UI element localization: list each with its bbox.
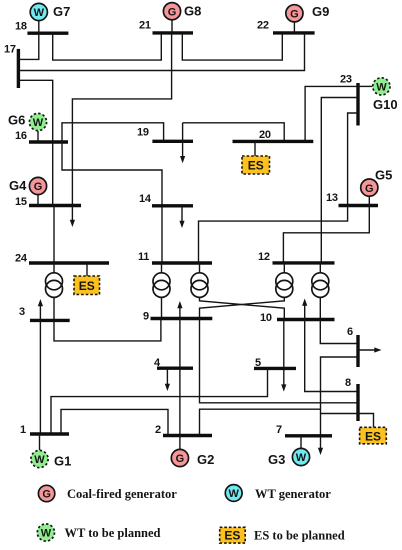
wire 15-24 (through bus 16/15 column) (52, 142, 54, 206)
bus 24 (15, 253, 109, 265)
wire 15-21 (72, 33, 171, 206)
svg-text:G5: G5 (375, 168, 392, 183)
bus 16 (15, 130, 68, 142)
bus 10 (260, 312, 335, 324)
svg-text:G2: G2 (197, 452, 214, 467)
wire 16-17 (18, 80, 52, 142)
bus 20 (233, 129, 314, 141)
generator G8 (coal) (163, 3, 201, 33)
wire 11-13 (199, 206, 348, 264)
svg-text:24: 24 (15, 253, 28, 265)
svg-text:2: 2 (155, 424, 161, 436)
generator G1 (WT planned) (31, 434, 71, 469)
svg-text:G8: G8 (184, 4, 201, 19)
svg-text:ES: ES (248, 159, 264, 173)
wire 13-23 (348, 113, 358, 206)
wire 2-6 (bus 6 to junction, down to bus 7 and load) (318, 357, 358, 455)
svg-text:6: 6 (347, 326, 353, 338)
svg-text:8: 8 (345, 377, 351, 389)
bus 14 (139, 193, 193, 206)
svg-text:W: W (376, 82, 387, 94)
wire 20-23 (305, 86, 358, 141)
bus 18 (15, 21, 68, 34)
bus 23 (340, 74, 358, 126)
generator G4 (coal) (9, 177, 47, 205)
bus 6 (347, 326, 358, 367)
generator G9 (coal) (286, 4, 330, 33)
legend: coal-fired generator (38, 485, 177, 501)
wire 18-21 (53, 33, 162, 60)
svg-text:W: W (34, 7, 45, 19)
svg-text:W: W (229, 488, 240, 500)
svg-text:ES: ES (365, 429, 381, 443)
legend: WT to be planned (37, 524, 160, 541)
generator G3 (WT) (268, 436, 310, 467)
transformer T2 (9-11) (153, 263, 170, 319)
wire 11-14 (161, 206, 163, 263)
svg-text:G6: G6 (8, 113, 25, 128)
generator G10 (WT planned) (358, 78, 398, 112)
bus 15 (15, 196, 81, 208)
bus 21 (139, 20, 193, 33)
load arrow bus 14 (179, 206, 184, 228)
svg-text:7: 7 (276, 424, 282, 436)
legend: WT generator (225, 485, 331, 502)
svg-text:9: 9 (143, 311, 149, 323)
load arrow bus 4 (165, 368, 170, 391)
bus 11 (138, 251, 212, 263)
svg-text:20: 20 (259, 129, 271, 141)
svg-text:G: G (168, 6, 177, 18)
bus 2 (155, 424, 212, 436)
bus 4 (154, 357, 193, 369)
svg-text:W: W (296, 452, 307, 464)
svg-text:G1: G1 (54, 454, 71, 469)
svg-text:G7: G7 (53, 4, 70, 19)
svg-text:W: W (33, 117, 44, 129)
wire 3-9 (54, 319, 161, 341)
transformer T3 (10-11, crossing) (191, 263, 284, 320)
transformer T4 (9-12, crossing) (200, 263, 293, 319)
svg-text:ES: ES (79, 279, 95, 293)
transformer T5 (10-12) (312, 263, 329, 320)
wire 5-10 + load arrow bus 5 (281, 320, 286, 392)
svg-text:15: 15 (15, 196, 27, 208)
wire 14-16 (62, 142, 162, 206)
bus 9 (143, 311, 212, 323)
wire 21-22 (182, 33, 282, 60)
load arrow bus 3 (up) + wire 1-3 (38, 299, 43, 434)
ES box at bus 20 (242, 141, 270, 174)
wire 12-13 (283, 206, 369, 263)
svg-text:G: G (365, 183, 374, 195)
load arrow bus 15 (70, 206, 75, 228)
svg-text:13: 13 (326, 192, 338, 204)
bus 22 (257, 20, 315, 33)
bus 8 (345, 377, 358, 421)
generator G5 (coal) (361, 168, 393, 206)
transformer T1 (24-3) (46, 263, 63, 320)
generator G2 (coal) (171, 436, 214, 468)
wire 17-18 (18, 33, 38, 59)
svg-text:23: 23 (340, 74, 352, 86)
svg-text:ES to be planned: ES to be planned (254, 529, 345, 543)
wire 17-22 (18, 33, 304, 71)
wire 8-9 (200, 319, 359, 403)
wire 7-8 + ES tap (321, 414, 374, 428)
wire 2-6 horizontal (200, 409, 321, 435)
svg-text:G9: G9 (312, 4, 329, 19)
generator G6 (WT planned) (8, 113, 47, 143)
svg-text:12: 12 (258, 251, 270, 263)
bus 19 (137, 127, 193, 142)
svg-text:G: G (34, 181, 43, 193)
legend: ES to be planned (220, 527, 345, 543)
bus 17 (4, 44, 18, 89)
generator G7 (WT) (30, 3, 70, 33)
svg-text:G4: G4 (9, 178, 27, 193)
bus 13 (326, 192, 378, 206)
bus 12 (258, 251, 335, 263)
wire 6-10 (320, 320, 358, 344)
svg-text:19: 19 (137, 127, 149, 139)
svg-text:1: 1 (20, 424, 26, 436)
bus 3 (19, 306, 70, 320)
svg-text:G: G (176, 453, 185, 465)
load arrow bus 10 (up) + wire 8-10 (302, 299, 358, 392)
svg-text:Coal-fired generator: Coal-fired generator (67, 487, 177, 501)
load arrow bus 9 (up) + wire 2-4-9 (177, 301, 182, 436)
wire 12-23 (321, 98, 358, 263)
bus 7 (276, 424, 332, 436)
svg-text:16: 16 (15, 130, 27, 142)
svg-text:WT generator: WT generator (255, 487, 331, 501)
svg-text:10: 10 (260, 312, 272, 324)
svg-text:11: 11 (138, 251, 149, 263)
svg-text:W: W (41, 528, 52, 540)
svg-text:17: 17 (4, 44, 16, 56)
svg-text:G10: G10 (373, 97, 398, 112)
svg-text:WT to be planned: WT to be planned (65, 526, 161, 540)
svg-text:G: G (42, 489, 51, 501)
svg-text:G: G (290, 9, 299, 21)
svg-text:G3: G3 (268, 452, 285, 467)
svg-text:ES: ES (224, 528, 240, 542)
wire 16-19 (62, 123, 164, 142)
wire 1-5 (51, 368, 268, 434)
bus 5 (254, 357, 296, 369)
wire 1-2 (61, 409, 168, 435)
svg-text:22: 22 (257, 20, 269, 32)
svg-text:18: 18 (15, 21, 27, 33)
ES box at bus 8 (360, 427, 387, 444)
bus 1 (20, 424, 69, 436)
svg-text:5: 5 (255, 357, 261, 369)
svg-text:14: 14 (139, 193, 152, 205)
ES box at bus 24 (74, 263, 100, 295)
load arrow bus 6 (right) (358, 347, 382, 352)
svg-text:21: 21 (139, 20, 151, 32)
svg-text:W: W (34, 454, 45, 466)
svg-text:3: 3 (19, 306, 25, 318)
wire 19-20 + load arrow bus 19 (180, 123, 284, 163)
